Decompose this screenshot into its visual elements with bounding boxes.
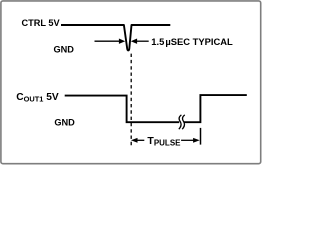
break symbol squiggle right (182, 115, 185, 129)
svg-text:COUT1 5V: COUT1 5V (16, 92, 59, 104)
break symbol squiggle left (179, 115, 182, 129)
wire COUT1 waveform: fall, low level left segment (65, 96, 180, 123)
svg-text:CTRL 5V: CTRL 5V (22, 18, 61, 28)
svg-text:GND: GND (54, 45, 75, 55)
tick mark at rising edge (200, 128, 202, 145)
arrow TPULSE left pointing left (131, 138, 138, 143)
wire CTRL waveform with negative pulse (61, 25, 170, 50)
wire COUT1 waveform: low level right segment, rise, high level (184, 95, 247, 122)
border frame (decorative) (1, 1, 261, 164)
svg-text:1.5µSEC TYPICAL: 1.5µSEC TYPICAL (151, 36, 233, 47)
arrow right pointing left at pulse (131, 39, 137, 44)
svg-text:GND: GND (54, 118, 75, 128)
arrow left pointing right at pulse (95, 40, 120, 42)
arrow TPULSE right pointing right (181, 139, 194, 141)
dashed timing reference line (130, 54, 132, 148)
